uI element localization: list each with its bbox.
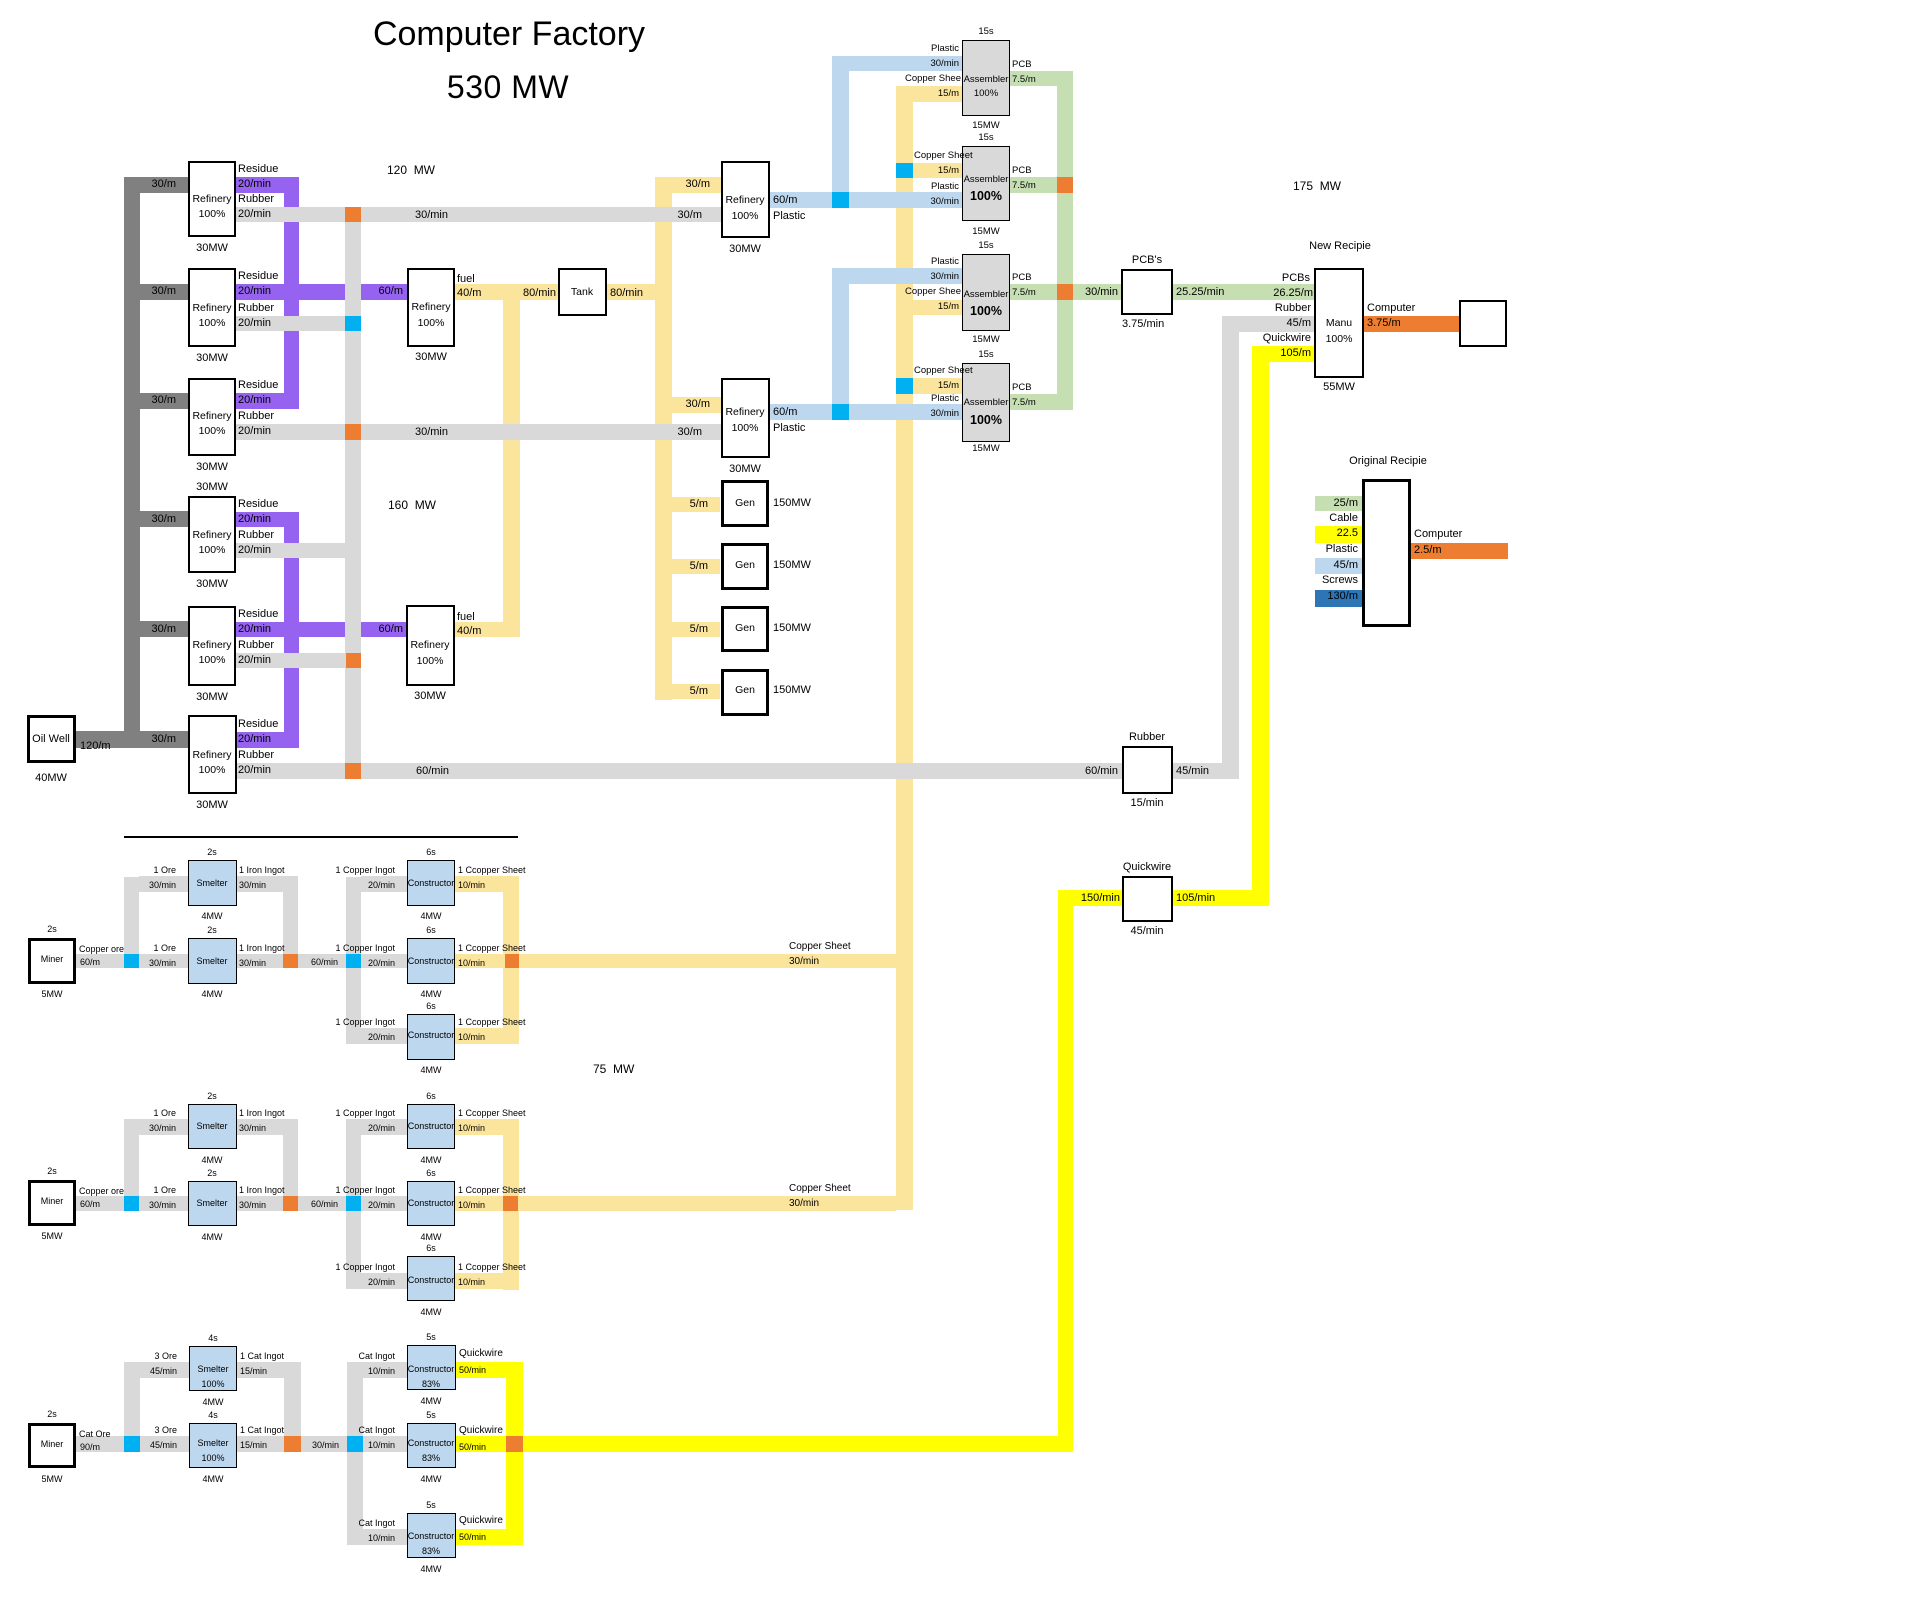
residue out R3 — [236, 393, 299, 409]
refinery R6 — [188, 715, 237, 794]
rubber out R3 to plastic refinery P2 — [236, 424, 721, 440]
A2 label Copper Sheet — [914, 150, 973, 162]
refinery R2 — [188, 268, 236, 347]
residue out R1 — [236, 177, 299, 193]
C1 right rate — [458, 880, 485, 891]
R5 input label 30/m — [152, 623, 176, 637]
S3 left rate — [149, 1123, 176, 1134]
fuel refinery F2 — [406, 605, 455, 686]
C2 left in — [335, 943, 395, 954]
C1 label 4MW — [281, 911, 581, 922]
plastic refinery P2 — [721, 378, 770, 458]
g1 merger orange after smelters — [283, 954, 298, 968]
fuel out F2 — [455, 622, 520, 637]
C3 left in — [335, 1017, 395, 1028]
fuel stub plastic refinery P1 — [672, 177, 721, 193]
legend swatch plastic blue — [1315, 558, 1362, 574]
quickwire into Manu — [1269, 346, 1314, 362]
C9 left in — [358, 1518, 395, 1529]
g2 out label Copper Sheet — [789, 1183, 851, 1196]
g2 smelter S3 feed — [139, 1119, 188, 1135]
crude stub refinery R4 — [140, 511, 188, 527]
g2 merger orange sheet collector — [503, 1196, 518, 1211]
M3 rate label — [80, 1442, 100, 1453]
S4 right out — [239, 1185, 285, 1196]
Manu text — [1189, 317, 1489, 330]
main label 26.25/m — [1273, 287, 1313, 301]
F1 text Refinery — [281, 301, 581, 314]
rubber vertical to Manu — [1222, 316, 1239, 779]
S1 left in — [153, 865, 176, 876]
C9 left rate — [368, 1533, 395, 1544]
S1 label 2s — [62, 847, 362, 858]
PCB vertical collector — [1057, 71, 1073, 410]
tank text — [432, 286, 732, 299]
S2 right rate — [239, 958, 266, 969]
C7 left rate — [368, 1366, 395, 1377]
crude stub refinery R5 — [140, 621, 188, 637]
F1 text 100% — [281, 317, 581, 330]
PCBs balancer box — [1121, 269, 1173, 315]
R4 text 100% — [62, 544, 362, 557]
C3 right out — [458, 1017, 526, 1028]
main label PCBs — [1282, 272, 1310, 286]
C9 label 4MW — [281, 1564, 581, 1575]
C9 out Quickwire — [459, 1515, 503, 1528]
S4 text — [62, 1198, 362, 1209]
C6 text — [281, 1275, 581, 1286]
S6 label 4MW — [63, 1474, 363, 1485]
g2 out label 30/min — [789, 1198, 819, 1211]
S2 label 4MW — [62, 989, 362, 1000]
merger orange rubber R6 line — [345, 763, 361, 779]
Quickwire label 150/min — [1081, 892, 1120, 906]
R2 text Refinery — [62, 302, 362, 315]
Rubber box title — [997, 731, 1297, 745]
PCBs label 30/min — [1085, 286, 1118, 300]
A3 label 15/m — [938, 301, 959, 313]
constructor C8 — [407, 1423, 456, 1468]
legend title — [1238, 455, 1538, 469]
C4 right rate — [458, 1123, 485, 1134]
S6 right out — [240, 1425, 284, 1436]
g3 merger orange quickwire collector — [506, 1436, 523, 1452]
P2 rubber label 30/m — [678, 426, 702, 440]
g3 splitter cyan before constructors — [347, 1436, 363, 1452]
F1 label 30MW — [281, 351, 581, 365]
S2 right out — [239, 943, 285, 954]
quickwire into Quickwire box — [1073, 890, 1122, 906]
Quickwire box title — [997, 861, 1297, 875]
S6 left in — [154, 1425, 177, 1436]
g2 sheet vertical collector — [503, 1119, 519, 1290]
g1 out label Copper Sheet — [789, 941, 851, 954]
subtitle power — [358, 67, 658, 107]
splitter cyan copper sheet A4 — [896, 378, 913, 394]
rubber long line R6 to Rubber box — [236, 763, 1122, 779]
C7 text pct — [281, 1379, 581, 1390]
label New Recipie — [1190, 240, 1490, 254]
C8 left in — [358, 1425, 395, 1436]
C8 out 50/min — [459, 1442, 486, 1453]
g1 sheet out C1 — [455, 876, 519, 892]
A2 text 100% — [836, 189, 1136, 205]
A4 text 100% — [836, 413, 1136, 429]
S1 text — [62, 878, 362, 889]
miner M3 — [28, 1423, 76, 1468]
plastic vertical to assembler A1 — [832, 56, 849, 208]
Gen2 label 150MW — [773, 559, 811, 573]
assembler A4 — [962, 363, 1010, 442]
P1 fuel label 30/m — [686, 178, 710, 192]
C6 right rate — [458, 1277, 485, 1288]
oil well — [27, 715, 76, 763]
legend swatch screws dark blue — [1315, 590, 1362, 607]
crude stub refinery R1 — [140, 177, 188, 193]
S6 text — [63, 1438, 363, 1449]
copper sheet stub assembler A2 — [913, 163, 962, 178]
S6 text pct — [63, 1453, 363, 1464]
g3 label 30/min — [312, 1440, 339, 1451]
F2 label 30MW — [280, 690, 580, 704]
crude stub refinery R3 — [140, 393, 188, 409]
merger orange PCB A2 — [1057, 177, 1073, 193]
label 175 MW — [1293, 179, 1341, 194]
residue out R4 — [236, 512, 299, 527]
S2 left in — [153, 943, 176, 954]
R4 text Refinery — [62, 529, 362, 542]
assembler A1 — [962, 40, 1010, 116]
g3 constructor C9 feed — [363, 1529, 407, 1545]
PCB main line to Manu — [1010, 284, 1314, 300]
constructor C3 — [407, 1014, 455, 1060]
label 160 MW — [388, 498, 436, 513]
g2 main ore/ingot row — [76, 1196, 407, 1211]
splitter cyan copper sheet A2 — [896, 163, 913, 178]
A4 text Assembler — [836, 397, 1136, 409]
S5 text pct — [63, 1379, 363, 1390]
C8 text pct — [281, 1453, 581, 1464]
quickwire main horizontal — [523, 1436, 1073, 1452]
C9 out 50/min — [459, 1532, 486, 1543]
S3 left in — [153, 1108, 176, 1119]
g1 merger orange sheet collector — [505, 954, 519, 968]
R6 label 30MW — [62, 799, 362, 813]
S6 label 4s — [63, 1410, 363, 1421]
g1 sheet vertical collector — [503, 876, 519, 1044]
g3 vertical ingot splitter — [347, 1362, 363, 1545]
C2 text — [281, 956, 581, 967]
smelter S2 — [188, 938, 237, 984]
S3 right rate — [239, 1123, 266, 1134]
C6 left rate — [368, 1277, 395, 1288]
M3 ore label — [79, 1429, 111, 1440]
Gen3 label 5/m — [690, 623, 708, 637]
S3 text — [62, 1121, 362, 1132]
P2 text Refinery — [595, 406, 895, 419]
A1 label 15MW — [836, 120, 1136, 132]
C3 text — [281, 1030, 581, 1041]
P1 label Plastic — [773, 210, 805, 224]
miner M2 — [28, 1180, 76, 1226]
P2 label 30MW — [595, 463, 895, 477]
R3 text Refinery — [62, 410, 362, 423]
P1 text Refinery — [595, 194, 895, 207]
R4 label Rubber — [238, 529, 274, 543]
copper sheet stub assembler A4 — [913, 378, 962, 394]
A2 label PCB — [1012, 165, 1032, 177]
R2 label 30MW — [62, 352, 362, 366]
rubber line label 60/min right — [1085, 765, 1118, 779]
F1 label 40/m — [457, 287, 481, 301]
C3 label 6s — [281, 1001, 581, 1012]
R1 input label 30/m — [152, 178, 176, 192]
generator Gen4 — [721, 669, 769, 716]
fuel stub generator Gen4 — [672, 684, 720, 699]
smelter S6 — [189, 1423, 237, 1468]
A2 label 15s — [836, 132, 1136, 144]
R5 label 20/min residue — [238, 623, 271, 637]
R3 label Residue — [238, 379, 278, 393]
C9 text — [281, 1531, 581, 1542]
C5 label 4MW — [281, 1232, 581, 1243]
rubber line label 60/min left — [416, 765, 449, 779]
plastic out P2 to assembler A4 — [770, 404, 962, 420]
S2 text — [62, 956, 362, 967]
fuel into Tank — [520, 284, 558, 300]
R6 label 20/min rubber — [238, 764, 271, 778]
Rubber label 15/min — [997, 797, 1297, 811]
g2 merger orange after smelters — [283, 1196, 298, 1211]
constructor C7 — [407, 1345, 456, 1390]
g3 quickwire vertical collector — [506, 1362, 523, 1545]
F2 label 60/m — [379, 623, 403, 637]
M1 rate label — [80, 957, 100, 968]
g2 vertical ingot splitter — [346, 1119, 361, 1289]
A4 label 30/min — [930, 408, 959, 420]
g3 smelter S5 out horizontal — [237, 1362, 301, 1378]
R5 label 20/min rubber — [238, 654, 271, 668]
g1 vertical ore to smelter S1 — [124, 877, 139, 954]
A1 label Copper Sheet (clipped by box) — [905, 73, 961, 85]
g3 constructor C7 feed — [363, 1362, 407, 1378]
C5 right out — [458, 1185, 526, 1196]
residue trunk vertical lower — [284, 512, 299, 748]
S1 right rate — [239, 880, 266, 891]
R6 label Rubber — [238, 749, 274, 763]
F2 text Refinery — [280, 639, 580, 652]
assembler A3 — [962, 254, 1010, 331]
g3 smelter S5 feed — [140, 1362, 189, 1378]
R2 text 100% — [62, 317, 362, 330]
g2 label 60/min — [311, 1199, 338, 1210]
C9 text pct — [281, 1546, 581, 1557]
Gen4 label 150MW — [773, 684, 811, 698]
tank — [558, 268, 607, 316]
refinery R4 — [188, 496, 236, 573]
C4 label 6s — [281, 1091, 581, 1102]
A2 label 15/m — [938, 165, 959, 177]
g2 sheet main out to trunk — [455, 1196, 896, 1211]
legend label Plastic — [1326, 543, 1358, 557]
P1 label 60/m — [773, 194, 797, 208]
legend label 130/m — [1327, 590, 1358, 604]
legend label 22.5 — [1337, 527, 1358, 541]
copper sheet trunk vertical — [896, 86, 913, 1210]
g2 smelter S3 out horizontal — [237, 1119, 298, 1135]
C6 label 6s — [281, 1243, 581, 1254]
g3 smelter S5 out vertical — [284, 1362, 301, 1436]
g1 label 60/min — [311, 957, 338, 968]
A3 label 15MW — [836, 334, 1136, 346]
Manu label Quickwire — [1263, 332, 1311, 346]
S3 label 4MW — [62, 1155, 362, 1166]
residue out R2 to fuel refinery F1 — [236, 284, 407, 300]
Rubber label 45/min — [1176, 765, 1209, 779]
C3 right rate — [458, 1032, 485, 1043]
legend label 2.5/m — [1414, 544, 1442, 558]
fuel out of Tank — [607, 284, 655, 300]
plastic into assembler A1 — [849, 56, 962, 71]
C4 right out — [458, 1108, 526, 1119]
P1 label 30MW — [595, 243, 895, 257]
R2 label 20/min rubber — [238, 317, 271, 331]
legend label 45/m — [1334, 559, 1358, 573]
quickwire out of Quickwire box — [1173, 890, 1252, 906]
A1 label 7.5/m — [1012, 74, 1036, 86]
A3 label 15s — [836, 240, 1136, 252]
R5 text 100% — [62, 654, 362, 667]
g3 merger orange after smelters — [284, 1436, 301, 1452]
PCB out assembler A4 — [1010, 394, 1073, 410]
computer out legend — [1411, 543, 1508, 559]
P1 rubber label 30/m — [678, 209, 702, 223]
C4 left in — [335, 1108, 395, 1119]
smelter S3 — [188, 1104, 237, 1149]
g2 constructor C6 feed — [361, 1273, 407, 1289]
g3 quickwire out C7 — [456, 1362, 523, 1378]
A3 label Plastic — [931, 256, 959, 268]
R6 text 100% — [62, 764, 362, 777]
A1 label 15s — [836, 26, 1136, 38]
R1 text 100% — [62, 208, 362, 221]
C2 label 6s — [281, 925, 581, 936]
merger orange rubber R3 line — [345, 424, 361, 440]
M2 label 5MW — [0, 1231, 202, 1242]
rubber out R4 — [236, 543, 361, 558]
C3 label 4MW — [281, 1065, 581, 1076]
merger orange PCB A3 main — [1057, 284, 1073, 300]
g1 smelter S1 feed — [139, 876, 188, 892]
C4 left rate — [368, 1123, 395, 1134]
quickwire vertical to Manu — [1252, 346, 1269, 906]
Gen3 text — [595, 622, 895, 635]
R3 label 20/min rubber — [238, 425, 271, 439]
residue out R5 to fuel refinery F2 — [236, 622, 406, 637]
fuel stub generator Gen1 — [672, 497, 720, 512]
fuel out F1 — [455, 284, 503, 300]
generator Gen2 — [721, 543, 769, 590]
P2 text 100% — [595, 422, 895, 435]
S3 right out — [239, 1108, 285, 1119]
legend swatch PCB green — [1315, 496, 1362, 511]
A4 label 15/m — [938, 380, 959, 392]
smelter S5 — [189, 1346, 237, 1391]
computer out of Manu — [1364, 316, 1459, 332]
C4 text — [281, 1121, 581, 1132]
R4 label 20/min rubber — [238, 544, 271, 558]
rubber out R1 to plastic refinery P1 — [236, 207, 721, 222]
R6 input label 30/m — [152, 733, 176, 747]
C4 label 4MW — [281, 1155, 581, 1166]
M1 ore label — [79, 944, 124, 955]
F2 text 100% — [280, 655, 580, 668]
Manu label Computer — [1367, 302, 1415, 316]
fuel stub plastic refinery P2 — [672, 397, 721, 413]
P1 rubber label 30/min — [415, 209, 448, 223]
Gen1 label 150MW — [773, 497, 811, 511]
g2 sheet out C4 — [455, 1119, 519, 1135]
g3 main ore/ingot row — [76, 1436, 407, 1452]
legend label Cable — [1329, 512, 1358, 526]
M3 label 5MW — [0, 1474, 202, 1485]
g2 sheet out C6 — [455, 1273, 519, 1289]
C2 right rate — [458, 958, 485, 969]
C7 left in — [358, 1351, 395, 1362]
F2 label 40/m — [457, 625, 481, 639]
divider line between oil section and mining section — [124, 836, 518, 838]
g1 constructor C3 feed — [361, 1028, 407, 1044]
R3 label 30MW — [62, 461, 362, 475]
R4 input label 30/m — [152, 513, 176, 527]
C1 label 6s — [281, 847, 581, 858]
crude stub refinery R2 — [140, 284, 188, 300]
A4 label 7.5/m — [1012, 397, 1036, 409]
constructor C2 — [407, 938, 455, 984]
R1 text Refinery — [62, 193, 362, 206]
legend label 25/m — [1334, 497, 1358, 511]
C7 out 50/min — [459, 1365, 486, 1376]
Gen4 text — [595, 684, 895, 697]
g1 constructor C1 feed — [361, 876, 407, 892]
g1 sheet main out to trunk — [455, 954, 896, 968]
S1 right out — [239, 865, 285, 876]
C2 label 4MW — [281, 989, 581, 1000]
generator Gen1 — [721, 480, 769, 527]
C8 label 5s — [281, 1410, 581, 1421]
R2 label Residue — [238, 270, 278, 284]
C7 label 5s — [281, 1332, 581, 1343]
computer output box — [1459, 300, 1507, 347]
S4 label 2s — [62, 1168, 362, 1179]
S4 right rate — [239, 1200, 266, 1211]
R2 label Rubber — [238, 302, 274, 316]
M2 label 2s — [0, 1166, 202, 1177]
R4 label Residue — [238, 498, 278, 512]
F1 label fuel — [457, 273, 475, 287]
S5 right rate — [240, 1366, 267, 1377]
R5 text Refinery — [62, 639, 362, 652]
C1 left rate — [368, 880, 395, 891]
assembler A2 — [962, 146, 1010, 221]
refinery R5 — [188, 606, 236, 686]
R6 label Residue — [238, 718, 278, 732]
quickwire overflow box — [1122, 876, 1173, 922]
g2 vertical ore to smelter S3 — [124, 1119, 139, 1196]
tank label 80/min in — [523, 287, 556, 301]
constructor C9 — [407, 1513, 456, 1558]
constructor C1 — [407, 860, 455, 906]
